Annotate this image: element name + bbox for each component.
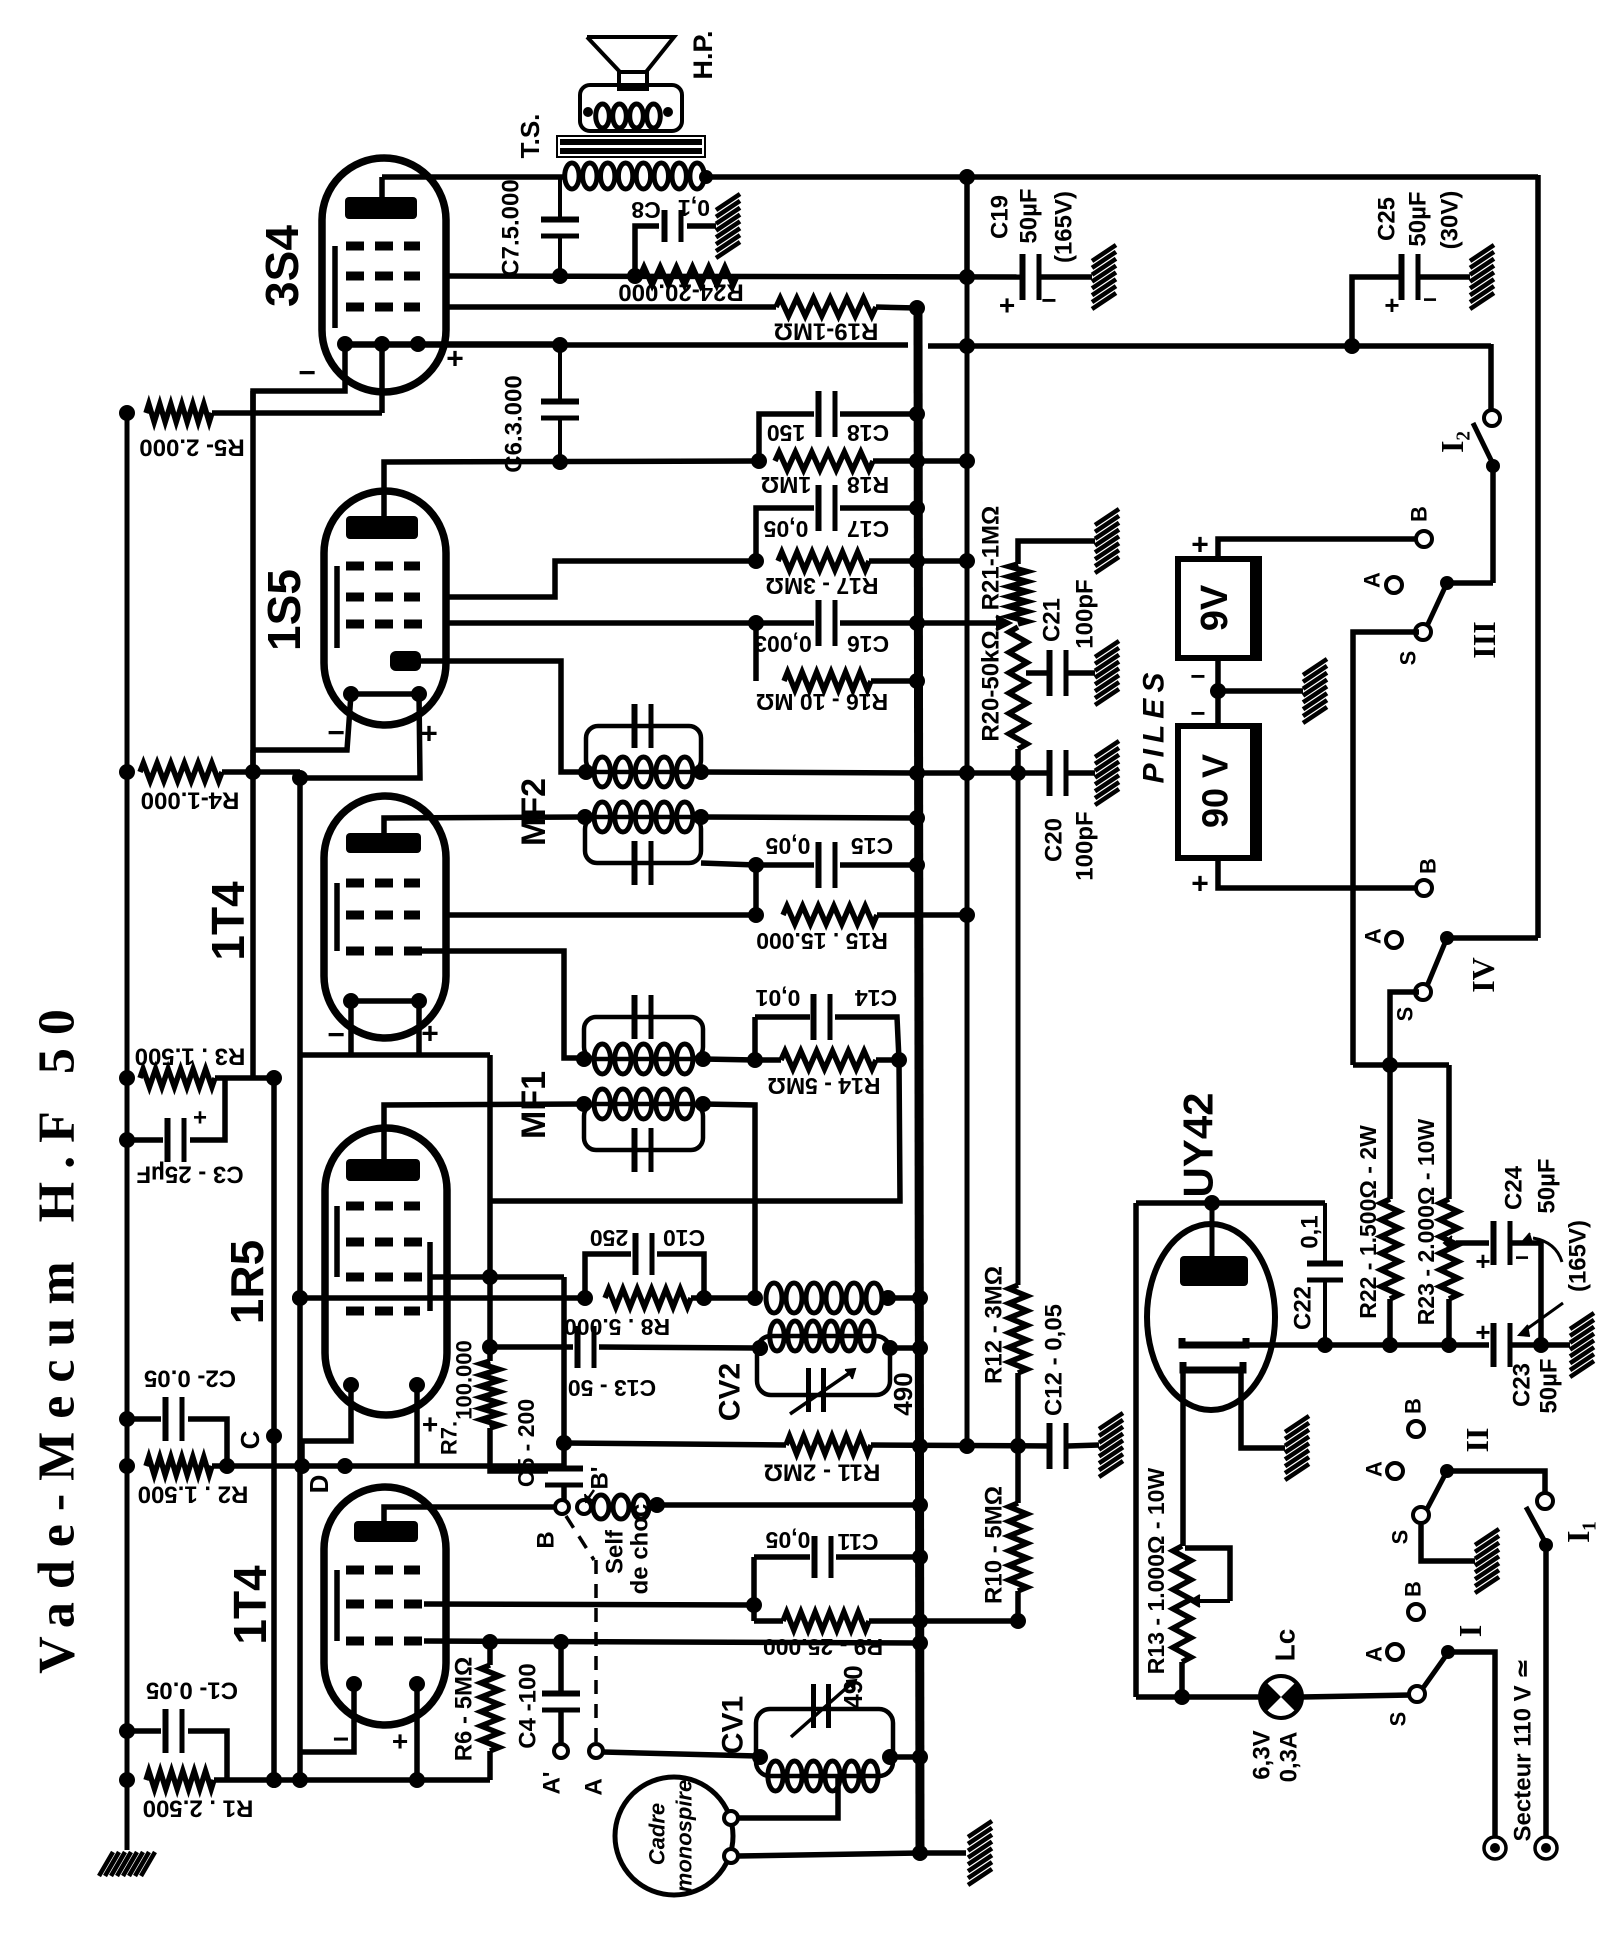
wire I1 to secteur	[1543, 1545, 1549, 1838]
battery 90V	[1178, 726, 1260, 858]
label C21 100pF	[1072, 579, 1099, 648]
svg-text:R17 - 3MΩ: R17 - 3MΩ	[765, 573, 878, 599]
wire x564	[556, 1277, 572, 1470]
capacitor C17 line	[756, 485, 925, 561]
terminal secteur 2	[1535, 1837, 1557, 1859]
svg-text:R13 - 1.000Ω - 10W: R13 - 1.000Ω - 10W	[1143, 1468, 1169, 1675]
label R10-5M	[981, 1486, 1008, 1604]
svg-text:PILES: PILES	[1138, 667, 1171, 784]
grid 1T4l row2	[346, 1600, 424, 1609]
grid 1T4l bracket	[334, 1570, 340, 1641]
terminal A	[589, 1744, 603, 1758]
oscillator coil	[766, 1283, 928, 1313]
wire 1T4u row3	[421, 951, 584, 1058]
svg-text:6,3V: 6,3V	[1249, 1730, 1276, 1779]
label C21	[1039, 598, 1066, 642]
svg-text:C25: C25	[1374, 197, 1401, 241]
label C25 50uF	[1405, 191, 1432, 246]
label I	[1452, 1625, 1488, 1637]
svg-text:IV: IV	[1465, 957, 1501, 993]
svg-text:A: A	[1361, 928, 1386, 944]
tuned circuit CV1	[752, 1680, 898, 1791]
tube 1S5	[324, 491, 446, 725]
svg-text:C19: C19	[987, 195, 1014, 239]
label C19 50uF	[1016, 188, 1043, 243]
wire cadre top tap	[738, 1776, 838, 1818]
label S II	[1388, 1530, 1413, 1545]
label D	[304, 1475, 334, 1494]
svg-text:1R5: 1R5	[221, 1240, 273, 1324]
label PILES	[1138, 667, 1171, 784]
speaker HP cone	[587, 37, 674, 89]
svg-text:R4-1.000: R4-1.000	[141, 787, 240, 814]
resistor R13	[1173, 1546, 1191, 1705]
label S IV	[1393, 1007, 1418, 1022]
label R20-50k	[978, 630, 1005, 741]
svg-text:II: II	[1459, 1428, 1495, 1453]
label C13-50	[568, 1375, 656, 1401]
wire bus H3	[345, 337, 1491, 354]
label R18	[761, 472, 889, 498]
wire CV1 right	[890, 1749, 928, 1765]
svg-text:R5- 2.000: R5- 2.000	[139, 434, 244, 461]
switch I	[1387, 1604, 1455, 1702]
label C10	[590, 1225, 705, 1251]
svg-text:A: A	[1362, 1646, 1387, 1662]
ground piles	[1303, 659, 1327, 723]
wire 1T4u fil plus	[416, 1001, 422, 1055]
transformer T.S. core	[557, 136, 705, 157]
label C15	[765, 833, 893, 859]
transformer primary coil	[565, 163, 713, 189]
label C6.3.000	[501, 375, 528, 472]
svg-text:R3 . 1.500: R3 . 1.500	[135, 1043, 246, 1070]
grid 1T4l row1	[346, 1566, 420, 1575]
capacitor C22	[1307, 1203, 1343, 1353]
label R11-2M	[764, 1459, 881, 1486]
svg-text:(165V): (165V)	[1565, 1220, 1592, 1292]
svg-text:C20: C20	[1041, 818, 1068, 862]
grid 1S5 bracket	[334, 566, 340, 648]
dashed link B to A	[566, 1516, 596, 1742]
capacitor C19	[999, 254, 1092, 321]
svg-text:C16: C16	[847, 631, 889, 657]
grid 3S4 row2	[346, 272, 420, 281]
wire 1R5 row3 out	[430, 1269, 564, 1285]
label R23	[1413, 1119, 1439, 1326]
label H.P.	[688, 30, 718, 79]
svg-text:−: −	[1041, 285, 1056, 315]
label A II	[1362, 1461, 1387, 1477]
svg-text:0,1: 0,1	[678, 195, 710, 221]
IF transformer MF2 primary	[578, 704, 709, 787]
label C20	[1041, 818, 1068, 862]
ground C25	[1470, 245, 1494, 309]
label R21-1M	[978, 506, 1005, 611]
svg-text:B: B	[1401, 1581, 1426, 1597]
svg-text:+: +	[1475, 1317, 1490, 1347]
wire rail x300	[292, 772, 308, 1780]
slider R13	[1185, 1548, 1230, 1607]
anode 1S5	[346, 516, 418, 539]
label C16	[754, 631, 889, 657]
speaker HP frame	[580, 85, 682, 131]
label R17-3M	[765, 573, 878, 599]
resistor R21	[1009, 541, 1095, 624]
svg-text:I₂: I₂	[1434, 431, 1470, 453]
svg-text:50µF: 50µF	[1016, 188, 1043, 243]
svg-text:A: A	[1360, 572, 1385, 588]
wire 3S4 fil minus	[253, 344, 345, 413]
label S III	[1396, 651, 1421, 666]
capacitor C7	[541, 177, 579, 276]
label 9V plus	[1191, 529, 1209, 562]
resistor R18	[751, 452, 975, 470]
label 9V	[1194, 584, 1236, 631]
label A	[581, 1778, 608, 1795]
wire top bus H1	[382, 174, 1538, 180]
svg-text:C10: C10	[663, 1225, 705, 1251]
svg-text:(165V): (165V)	[1051, 191, 1078, 263]
label B III	[1407, 506, 1432, 522]
anode 3S4	[345, 197, 417, 219]
svg-text:R20-50kΩ: R20-50kΩ	[978, 630, 1005, 741]
resistor R4	[119, 763, 300, 781]
capacitor C3	[119, 1078, 225, 1162]
svg-text:50µF: 50µF	[1534, 1158, 1561, 1213]
ground left bus	[99, 1852, 155, 1876]
wire bus X3	[965, 277, 970, 1446]
svg-text:R18: R18	[847, 472, 889, 498]
wire piles mid	[1215, 691, 1221, 726]
label C19	[987, 195, 1014, 239]
svg-text:S: S	[1396, 651, 1421, 666]
svg-text:C13 - 50: C13 - 50	[568, 1375, 656, 1401]
capacitor C23	[1475, 1317, 1549, 1367]
wire bottom filament line	[1136, 1694, 1260, 1700]
capacitor C20	[1010, 750, 1095, 796]
svg-text:50µF: 50µF	[1536, 1358, 1563, 1413]
wire row3 R6 C4 line	[424, 1634, 928, 1651]
anode 1T4l	[354, 1521, 418, 1542]
label R2.1.500	[138, 1481, 249, 1508]
capacitor C10 box	[585, 1233, 704, 1298]
label B I	[1401, 1581, 1426, 1597]
wire choke to X2	[656, 1497, 928, 1513]
wire anode 1T4l lead	[384, 1507, 555, 1521]
label 490 CV1	[838, 1665, 868, 1708]
svg-text:CV1: CV1	[717, 1696, 750, 1754]
svg-text:0,05: 0,05	[765, 833, 810, 859]
label Ap	[539, 1771, 566, 1794]
switch I1	[1526, 1493, 1553, 1552]
grid 1S5 row1	[346, 562, 420, 571]
wire 1S5 fil minus	[253, 694, 351, 772]
ground C12	[1099, 1413, 1123, 1477]
resistor R16	[756, 623, 925, 690]
svg-text:C4 -100: C4 -100	[515, 1663, 542, 1748]
svg-text:R10 - 5MΩ: R10 - 5MΩ	[981, 1486, 1008, 1604]
svg-text:B: B	[533, 1531, 560, 1548]
capacitor C4	[542, 1642, 580, 1744]
svg-text:−: −	[327, 717, 345, 750]
label R5-2.000	[139, 434, 244, 461]
svg-text:C2- 0.05: C2- 0.05	[144, 1365, 236, 1392]
grid 3S4 bracket	[332, 246, 338, 328]
terminal B IV	[1416, 880, 1432, 896]
capacitor C6	[541, 345, 579, 462]
svg-text:0,05: 0,05	[763, 516, 808, 542]
label CV1	[717, 1696, 750, 1754]
svg-text:Secteur 110 V ≃: Secteur 110 V ≃	[1510, 1659, 1537, 1842]
wire Lc to I	[1302, 1695, 1411, 1697]
grid 1R5 row2	[346, 1238, 424, 1247]
wire UY42 cathode out	[1246, 1342, 1325, 1348]
label R13	[1143, 1468, 1169, 1675]
ground bottom middle	[968, 1821, 992, 1885]
svg-text:A': A'	[539, 1771, 566, 1794]
anode 1R5	[346, 1159, 420, 1181]
svg-text:C24: C24	[1501, 1165, 1528, 1210]
label 1R5	[221, 1240, 273, 1324]
label 3S4 minus	[298, 357, 316, 390]
wire bus X2	[918, 308, 920, 1853]
loop antenna cadre monospire	[615, 1777, 738, 1895]
svg-text:1T4: 1T4	[202, 881, 254, 961]
switch IV	[1386, 931, 1454, 1000]
switch I2	[1473, 410, 1500, 473]
capacitor C5	[545, 1469, 583, 1502]
svg-text:0,05: 0,05	[765, 1527, 810, 1553]
label C11	[765, 1527, 878, 1555]
wire x490 upper	[487, 1055, 493, 1201]
resistor R11	[786, 1436, 1051, 1454]
svg-text:C8: C8	[631, 197, 661, 223]
resistor R9	[754, 1612, 1018, 1630]
label C12-0.05	[1041, 1304, 1068, 1416]
svg-text:C11: C11	[837, 1529, 878, 1555]
label 1T4l minus	[333, 1724, 349, 1755]
filament 1T4u	[343, 993, 427, 1009]
resistor R20	[1009, 627, 1027, 773]
label R24-20.000	[618, 279, 743, 306]
label III	[1466, 621, 1502, 658]
wire MF2 primary right	[701, 765, 1018, 781]
resistor R8	[605, 1289, 763, 1307]
resistor R19	[446, 298, 925, 316]
wire 1T4l fil plus	[409, 1684, 425, 1788]
svg-text:+: +	[999, 290, 1015, 321]
grid 3S4 row3	[346, 303, 420, 312]
label MF1	[515, 1071, 553, 1139]
label 1T4u plus	[421, 1018, 439, 1051]
svg-text:D: D	[304, 1475, 334, 1494]
wire X3 top	[959, 169, 975, 277]
svg-text:B: B	[1401, 1398, 1426, 1414]
wire 1T4u fil minus	[348, 1001, 354, 1055]
grid 1S5 row2	[346, 593, 420, 602]
label R12-3M	[981, 1266, 1008, 1384]
svg-text:+: +	[392, 1726, 408, 1757]
wire CV2 right	[890, 1340, 928, 1356]
wire bus X4	[1016, 773, 1021, 1285]
diode plate 1S5	[390, 651, 421, 671]
label monospire	[672, 1780, 697, 1892]
svg-text:T.S.: T.S.	[515, 114, 545, 159]
svg-text:R16 - 10 MΩ: R16 - 10 MΩ	[756, 689, 888, 715]
capacitor C8	[635, 210, 716, 276]
label C22	[1290, 1286, 1317, 1330]
wire right border	[1447, 175, 1538, 938]
svg-text:MF2: MF2	[515, 778, 553, 846]
svg-text:R6 - 5MΩ: R6 - 5MΩ	[451, 1657, 478, 1762]
svg-text:1MΩ: 1MΩ	[761, 472, 811, 498]
ground C23	[1570, 1313, 1594, 1377]
label C3-25uF	[136, 1105, 243, 1188]
svg-text:150: 150	[767, 420, 805, 446]
capacitor C12	[1050, 1423, 1100, 1469]
resistor R24	[640, 267, 737, 285]
wire cadre bottom	[738, 1845, 928, 1861]
wire MF2 secondary right	[701, 810, 925, 826]
label R14-5M	[767, 1073, 880, 1099]
ground C20	[1095, 741, 1119, 805]
svg-text:CV2: CV2	[714, 1363, 747, 1421]
label Cadre	[645, 1803, 670, 1865]
label 1T4 lower	[224, 1565, 276, 1645]
grid 1S5 row3	[346, 620, 430, 629]
ground II	[1475, 1529, 1499, 1593]
svg-text:C6.3.000: C6.3.000	[501, 375, 528, 472]
svg-text:−: −	[298, 357, 316, 390]
svg-text:+: +	[1191, 868, 1209, 901]
label C5-200	[513, 1399, 539, 1487]
svg-text:50µF: 50µF	[1405, 191, 1432, 246]
label A IV	[1361, 928, 1386, 944]
wire UY42 fil left	[1180, 1370, 1186, 1546]
anode UY42	[1180, 1203, 1248, 1286]
tube 1T4 upper	[324, 796, 446, 1038]
svg-text:Cadre: Cadre	[645, 1803, 670, 1865]
label MF2	[515, 778, 553, 846]
svg-text:R12 - 3MΩ: R12 - 3MΩ	[981, 1266, 1008, 1384]
svg-text:R22 - 1.500Ω - 2W: R22 - 1.500Ω - 2W	[1355, 1125, 1381, 1319]
label UY42	[1175, 1092, 1222, 1197]
svg-text:C3 - 25µF: C3 - 25µF	[136, 1161, 243, 1188]
wire rail 1065	[1353, 1065, 1449, 1199]
svg-text:C18: C18	[847, 420, 889, 446]
wire UY42 fil right	[1241, 1370, 1285, 1448]
label R16-10M	[756, 689, 888, 715]
label T.S.	[515, 114, 545, 159]
wire II to I1	[1447, 1471, 1545, 1494]
label R4-1.000	[141, 787, 240, 814]
label R9-25.000	[763, 1634, 883, 1660]
grid 1R5 bracket right	[427, 1242, 433, 1311]
wire 1T4l row2 out	[424, 1597, 762, 1613]
label C8	[631, 197, 661, 223]
svg-text:100pF: 100pF	[1072, 579, 1099, 648]
wire left bus	[125, 413, 130, 1850]
label 1S5 minus	[327, 717, 345, 750]
svg-text:I₁: I₁	[1560, 1521, 1596, 1543]
svg-text:III: III	[1466, 621, 1502, 658]
wire IV S	[1382, 992, 1419, 1199]
label B IV	[1416, 858, 1441, 874]
label C19 165V	[1051, 191, 1078, 263]
wire bus H2	[446, 268, 1024, 285]
label C7.5.000	[498, 179, 525, 276]
wire rail x274	[266, 1078, 282, 1788]
wire 1S5 fil plus	[292, 694, 420, 786]
wire 1R5 fil minus	[294, 1385, 351, 1474]
grid 1T4u row2	[346, 911, 420, 920]
label A III	[1360, 572, 1385, 588]
resistor R22	[1381, 1199, 1399, 1353]
svg-text:490: 490	[888, 1372, 918, 1415]
capacitor C16 line	[446, 600, 925, 646]
label 9V minus	[1190, 661, 1205, 691]
IF transformer MF2 secondary	[577, 802, 709, 885]
label B	[533, 1531, 560, 1548]
resistor R7	[481, 1361, 499, 1428]
svg-text:R21-1MΩ: R21-1MΩ	[978, 506, 1005, 611]
svg-text:−: −	[1423, 287, 1437, 314]
wire diode 1S5	[421, 661, 586, 772]
svg-text:R7.: R7.	[437, 1421, 462, 1455]
label C1-0.05	[146, 1677, 238, 1704]
svg-text:B: B	[1407, 506, 1432, 522]
capacitor C11 line	[754, 1536, 928, 1578]
label I2	[1434, 431, 1470, 453]
IF transformer MF1 primary	[576, 995, 711, 1074]
label R1.2.500	[143, 1795, 254, 1822]
ground R21	[1095, 509, 1119, 573]
label C14	[755, 985, 897, 1011]
svg-text:R8 . 5.000: R8 . 5.000	[564, 1314, 670, 1340]
filament 1T4l	[346, 1676, 425, 1692]
label C18	[767, 420, 889, 446]
label 1T4u minus	[327, 1019, 345, 1052]
label Lc	[1270, 1629, 1301, 1662]
ground UY42	[1285, 1416, 1309, 1480]
wire anode 1R5 lead	[384, 1104, 584, 1159]
svg-text:0,3A: 0,3A	[1276, 1732, 1303, 1783]
wire I2 to III	[1447, 466, 1493, 583]
wire C15 line	[701, 842, 925, 915]
svg-text:monospire: monospire	[672, 1780, 697, 1892]
battery 9V	[1178, 559, 1260, 658]
svg-text:C17: C17	[847, 516, 889, 542]
label Self de choc	[602, 1504, 654, 1595]
resistor R23	[1440, 1199, 1458, 1353]
grid 1T4u row1	[346, 879, 420, 888]
grid 1T4u bracket	[334, 883, 340, 951]
wire rail 1055	[300, 1052, 490, 1058]
wire III S	[1353, 632, 1419, 1065]
svg-text:R9 - 25.000: R9 - 25.000	[763, 1634, 883, 1660]
label 6.3V	[1249, 1730, 1303, 1782]
cathode UY42 lower	[1183, 1362, 1243, 1370]
svg-text:R23 - 2.000Ω - 10W: R23 - 2.000Ω - 10W	[1413, 1119, 1439, 1326]
svg-text:C23: C23	[1509, 1363, 1536, 1407]
svg-text:0,003: 0,003	[754, 631, 812, 657]
wire 9V minus	[1210, 658, 1303, 699]
svg-text:R15 . 15.000: R15 . 15.000	[756, 928, 888, 954]
svg-text:9V: 9V	[1194, 584, 1236, 631]
resistor R12	[1009, 1285, 1027, 1446]
label C25 30V	[1437, 191, 1464, 250]
